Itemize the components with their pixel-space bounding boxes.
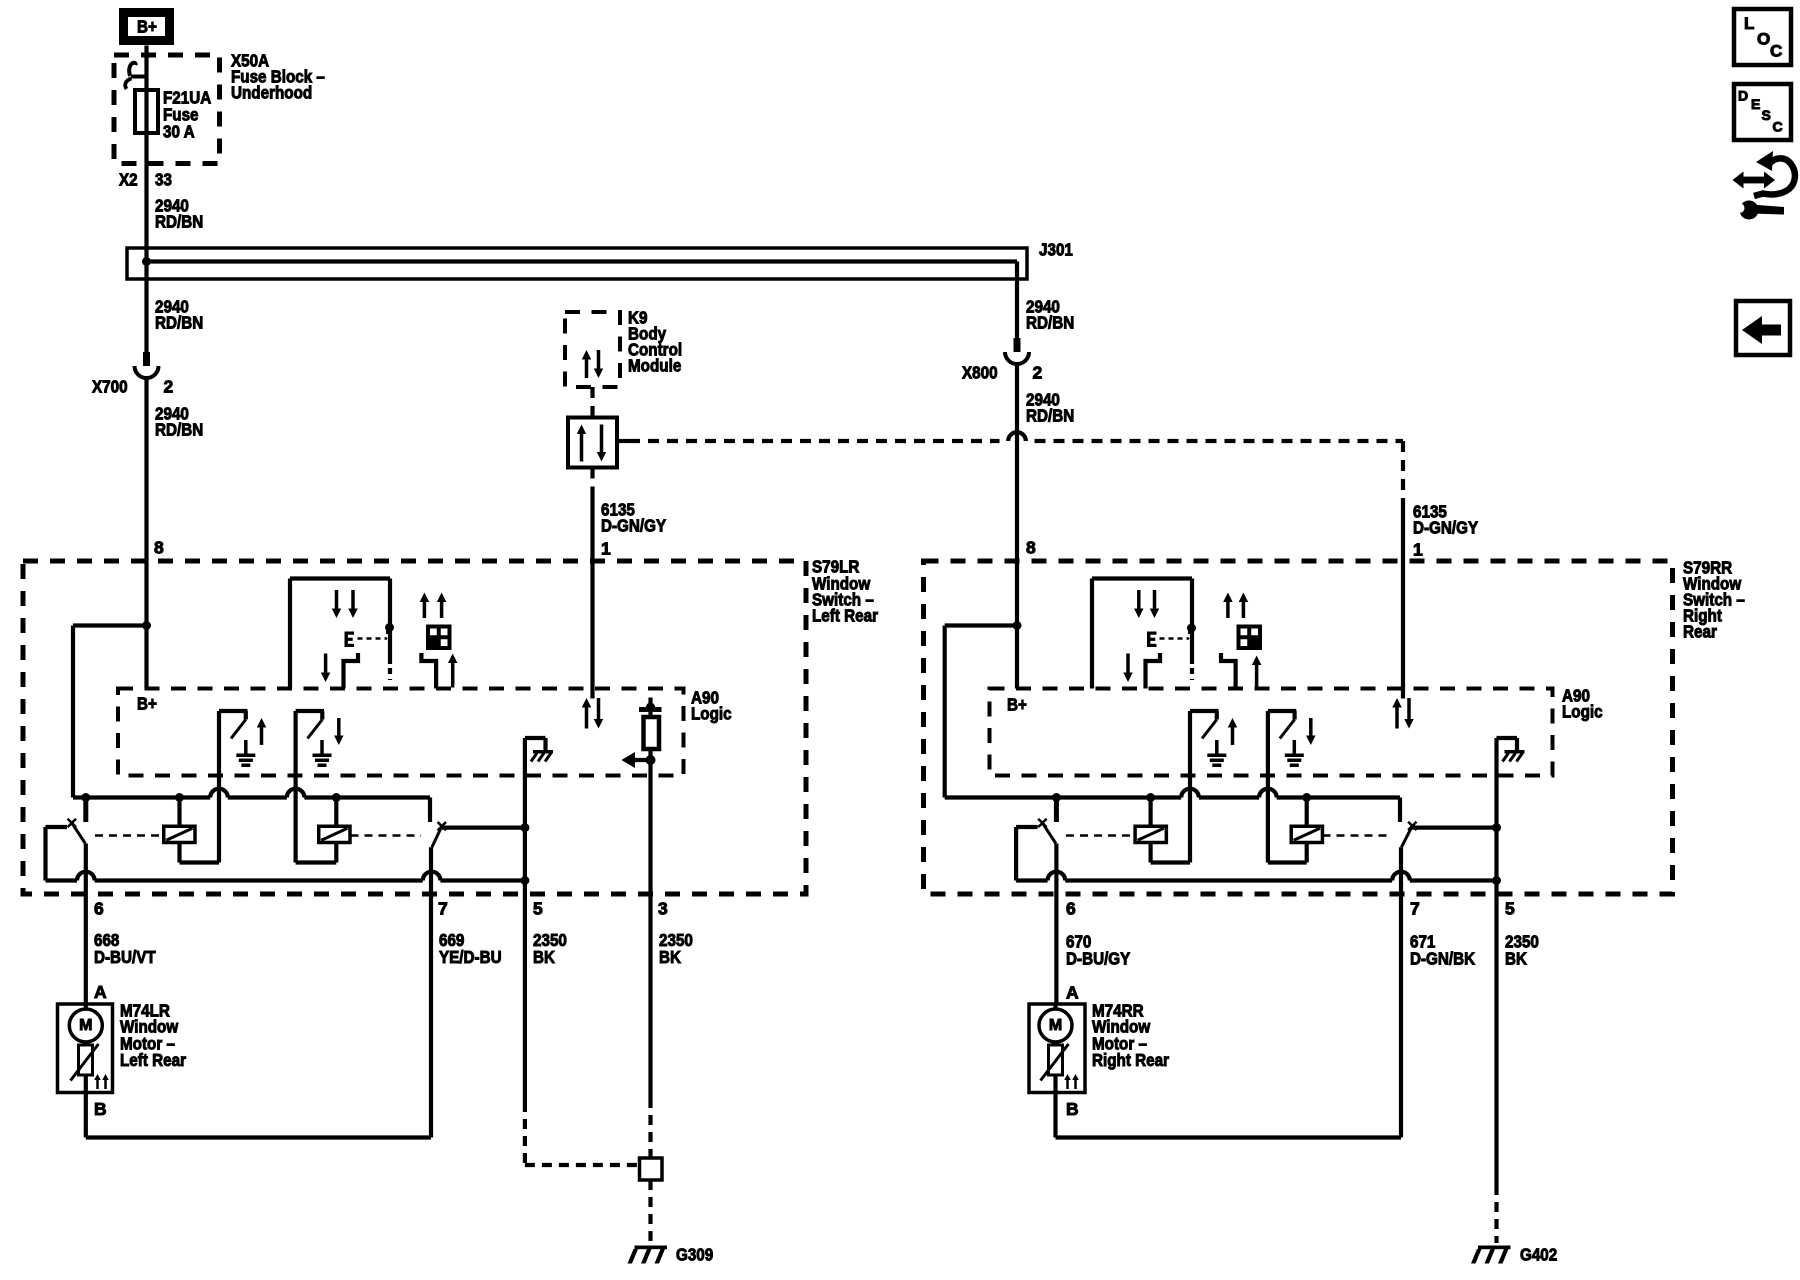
svg-text:B+: B+ <box>1007 695 1027 715</box>
svg-text:G309: G309 <box>676 1245 713 1265</box>
svg-text:6: 6 <box>1066 899 1076 919</box>
svg-text:Left Rear: Left Rear <box>120 1050 186 1070</box>
svg-text:3: 3 <box>658 899 668 919</box>
svg-text:J301: J301 <box>1039 240 1073 260</box>
svg-text:B: B <box>94 1099 107 1119</box>
svg-text:33: 33 <box>155 170 172 190</box>
svg-text:RD/BN: RD/BN <box>155 420 203 440</box>
svg-text:Logic: Logic <box>1562 702 1603 722</box>
svg-text:5: 5 <box>1505 899 1515 919</box>
svg-text:X2: X2 <box>119 170 138 190</box>
svg-text:A: A <box>94 982 107 1002</box>
svg-text:Module: Module <box>628 356 682 376</box>
svg-text:L: L <box>1744 14 1754 33</box>
svg-text:Right Rear: Right Rear <box>1092 1050 1169 1070</box>
svg-text:2: 2 <box>1033 363 1043 383</box>
svg-text:X700: X700 <box>92 377 128 397</box>
svg-text:C: C <box>1770 42 1782 61</box>
svg-text:A: A <box>1066 983 1079 1003</box>
svg-text:C: C <box>1773 119 1783 135</box>
svg-text:RD/BN: RD/BN <box>1026 406 1074 426</box>
svg-text:BK: BK <box>1505 949 1527 969</box>
svg-text:RD/BN: RD/BN <box>155 212 203 232</box>
svg-text:BK: BK <box>659 947 681 967</box>
svg-text:30 A: 30 A <box>163 122 195 142</box>
svg-text:7: 7 <box>438 899 448 919</box>
svg-text:Rear: Rear <box>1683 622 1717 642</box>
svg-text:S: S <box>1762 107 1771 123</box>
svg-text:RD/BN: RD/BN <box>1026 313 1074 333</box>
svg-text:X800: X800 <box>962 363 998 383</box>
svg-text:M: M <box>79 1017 92 1034</box>
svg-text:G402: G402 <box>1520 1245 1557 1265</box>
svg-text:RD/BN: RD/BN <box>155 313 203 333</box>
svg-text:8: 8 <box>154 538 164 558</box>
svg-text:B+: B+ <box>137 694 157 714</box>
svg-text:Left Rear: Left Rear <box>812 606 878 626</box>
svg-text:D-GN/BK: D-GN/BK <box>1410 949 1475 969</box>
svg-text:YE/D-BU: YE/D-BU <box>439 947 502 967</box>
svg-text:2: 2 <box>164 377 174 397</box>
svg-text:8: 8 <box>1026 538 1036 558</box>
svg-text:B: B <box>1066 1099 1079 1119</box>
svg-text:Underhood: Underhood <box>231 83 312 103</box>
svg-text:D-GN/GY: D-GN/GY <box>1413 518 1478 538</box>
svg-text:E: E <box>1751 96 1760 112</box>
svg-text:1: 1 <box>1413 540 1423 560</box>
svg-text:B+: B+ <box>137 17 157 37</box>
svg-text:D-GN/GY: D-GN/GY <box>601 516 666 536</box>
svg-text:D: D <box>1738 88 1748 104</box>
svg-text:Logic: Logic <box>691 704 732 724</box>
svg-text:1: 1 <box>601 539 611 559</box>
svg-text:BK: BK <box>533 947 555 967</box>
svg-text:5: 5 <box>533 899 543 919</box>
svg-text:D-BU/VT: D-BU/VT <box>94 947 156 967</box>
svg-text:7: 7 <box>1410 899 1420 919</box>
svg-text:6: 6 <box>94 899 104 919</box>
svg-text:M: M <box>1049 1017 1062 1034</box>
svg-text:D-BU/GY: D-BU/GY <box>1066 949 1131 969</box>
svg-text:O: O <box>1757 30 1770 49</box>
